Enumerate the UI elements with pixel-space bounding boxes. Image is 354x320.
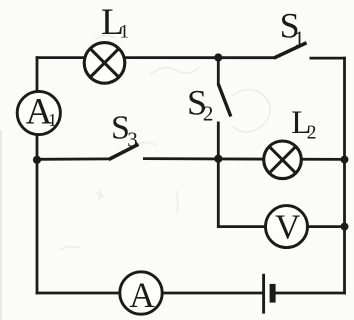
switch S3 blade: [109, 144, 139, 159]
switch S1 blade: [274, 43, 307, 58]
node junction left (middle wire): [33, 156, 41, 164]
ammeter A1: [17, 91, 60, 134]
wire battery to bottom-right corner: [276, 292, 346, 295]
wire top middle (L1 to S1 pivot): [123, 56, 275, 59]
wire S2 upper vertical: [217, 58, 220, 85]
svg-text:1: 1: [120, 21, 130, 42]
wire middle horizontal left (node to S3): [37, 157, 110, 160]
voltmeter V: [266, 206, 308, 248]
svg-text:1: 1: [294, 26, 305, 50]
svg-text:1: 1: [48, 110, 57, 130]
wire left vertical: [36, 56, 39, 294]
svg-text:2: 2: [307, 122, 317, 143]
lamp L1: [84, 43, 125, 84]
battery: [264, 274, 273, 314]
switch S2 blade: [218, 84, 231, 117]
wire bottom horizontal: [36, 292, 263, 295]
node junction right V: [341, 223, 349, 231]
svg-text:3: 3: [127, 127, 138, 151]
wire S1 right contact to top-right corner: [310, 57, 346, 60]
svg-text:V: V: [275, 208, 300, 247]
wire top-left horizontal: [36, 56, 86, 59]
wire voltmeter branch horizontal: [217, 225, 345, 228]
node junction top (S2/top wire): [214, 53, 222, 61]
lamp L2: [264, 141, 302, 179]
svg-text:2: 2: [203, 101, 214, 125]
wire middle horizontal right (S3 to right wire, through L2): [143, 157, 345, 161]
wire S2 lower vertical: [217, 122, 220, 159]
svg-text:A: A: [129, 275, 155, 315]
node junction middle (S2 bottom): [214, 155, 222, 163]
ammeter A: [120, 272, 162, 315]
wire voltmeter branch vertical: [217, 159, 220, 227]
node junction right L2: [341, 156, 349, 164]
wire right vertical: [343, 57, 346, 295]
